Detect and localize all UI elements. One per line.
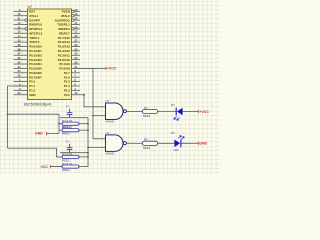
pin 31 EA/VPP left stub [14,17,40,23]
pin 24 P2.3/A11 right stub [58,52,80,58]
svg-text:RES2: RES2 [62,168,70,172]
svg-text:RES2: RES2 [62,132,70,136]
pin 32 P0.7/AD7 left stub [14,74,43,80]
pin 12 INT0/P3.2 left stub [14,25,43,31]
wire vertical net VCC down to gates [93,68,106,138]
svg-text:89C51RB2(Rp/4): 89C51RB2(Rp/4) [24,103,52,107]
pin 6 P1.5 right stub [64,78,80,84]
svg-text:U?: U? [28,5,32,9]
wire P1.1 long left vertical [8,86,28,148]
pin 9 RST left stub [14,8,36,14]
wire resistor to LED [158,142,175,144]
svg-text:C?: C? [66,140,70,144]
svg-text:P1.5: P1.5 [64,80,70,84]
pin 5 P1.4 right stub [64,82,80,88]
svg-text:RES2: RES2 [143,114,151,118]
wire VCC net from pin 21 to +VCC port [93,67,106,69]
pin 36 P0.3/AD3 left stub [14,56,43,62]
pin 4 P1.3 right stub [64,87,80,93]
LED D? pointing right [171,131,184,152]
power port GND [198,142,207,146]
svg-text:NAND: NAND [106,120,114,124]
svg-text:+VCC: +VCC [107,67,117,71]
pin 20 GND left stub [14,91,36,97]
svg-text:RES2: RES2 [143,146,151,150]
pin 17 RD/P3.7 right stub [59,30,80,36]
svg-text:GND: GND [35,132,43,136]
pin 19 XTAL1 left stub [14,12,39,18]
svg-text:NAND: NAND [106,151,114,155]
svg-text:P1.0: P1.0 [29,80,35,84]
svg-text:LED: LED [174,148,179,152]
svg-text:U?: U? [106,131,110,135]
resistor R? series [142,106,157,118]
svg-text:GND: GND [199,142,207,146]
resistor R? 4.7K [59,119,88,129]
pin 16 WR/P3.6 right stub [58,25,80,31]
resistor R? 4.7K [51,162,89,172]
capacitor C1 [66,105,73,118]
pin 34 P0.5/AD5 left stub [14,65,43,71]
right bus vertical x88 [87,118,89,167]
power port VCC lower-left [41,165,63,169]
junction at pin4 [83,94,85,96]
wire LED to port [182,142,199,144]
wire LED to port [183,111,199,113]
pin 28 P2.7/A15 right stub [58,34,80,40]
svg-text:+VCC: +VCC [199,110,209,114]
pin 7 P1.6 right stub [64,74,80,80]
pin 29 PSEN right stub [62,8,80,14]
pin 1 P1.0 left stub [14,78,36,84]
pin 13 INT1/P3.3 left stub [14,30,43,36]
wire cap bottom horizontal [60,152,88,154]
pin 18 XTAL2 right stub [61,12,80,18]
pin 27 P2.6/A14 right stub [58,38,80,44]
pin 25 P2.4/A12 right stub [58,47,80,53]
pin 14 T0/P3.4 left stub [14,34,40,40]
svg-text:P1.3: P1.3 [64,89,70,93]
LED D? pointing left [171,103,183,120]
wire pin4 P1.3 down to gate1 upper input [84,95,106,107]
resistor R? 4.7K [59,125,88,135]
svg-text:GND: GND [29,93,35,97]
pin 40 VCC right stub [64,91,84,97]
pin 21 P2.0/A8 right stub [59,65,93,71]
pin 11 TXD/P3.1 right stub [57,21,80,27]
svg-text:D?: D? [171,131,175,135]
wire gate1 lower input from VCC vertical [93,115,106,117]
svg-text:C?: C? [66,105,70,109]
wire gate2 lower input [88,147,106,149]
IC U? 89C51 microcontroller body [28,9,72,100]
wire gate output to resistor [127,142,143,144]
pin 15 T1/P3.5 left stub [14,38,40,44]
svg-text:VCC: VCC [41,165,49,169]
pin 38 P0.1/AD1 left stub [14,47,43,53]
pin 2 P1.1 left stub [14,82,36,88]
svg-text:P1.4: P1.4 [64,84,70,88]
svg-text:20: 20 [17,91,21,95]
wire cap bottom horizontal [60,117,88,119]
pin 10 RXD/P3.0 left stub [14,21,43,27]
pin 8 P1.7 right stub [64,69,80,75]
sheet background [0,0,220,174]
svg-text:U?: U? [106,99,110,103]
pin 26 P2.5/A13 right stub [58,43,80,49]
wire gate output to resistor [127,111,143,113]
power port +VCC [198,110,209,114]
pin 23 P2.2/A10 right stub [58,56,80,62]
pin 39 P0.0/AD0 left stub [14,43,43,49]
resistor R? 4.7K [57,152,89,162]
power port GND lower-left [35,132,59,136]
NAND gate U? (upper) [106,103,124,120]
pin 22 P2.1/A9 right stub [59,60,79,66]
pin 33 P0.6/AD6 left stub [14,69,43,75]
pin 35 P0.4/AD4 left stub [14,60,43,66]
svg-text:P1.2: P1.2 [29,89,35,93]
svg-text:P1.1: P1.1 [29,84,35,88]
pin 3 P1.2 left stub [14,87,36,93]
svg-text:D?: D? [171,103,175,107]
wire resistor to LED [158,111,177,113]
junction at 7.5,114.2 [7,113,9,115]
power port +VCC [106,67,117,71]
wire to group2 [8,148,63,157]
wire branch to group1 [8,114,60,133]
svg-text:40: 40 [74,91,78,95]
pin 30 ALE/PROG right stub [55,17,80,23]
junction at 93,115.7 [92,115,94,117]
svg-text:VCC: VCC [64,93,71,97]
NAND gate U? (lower) [106,135,124,152]
resistor R? series [142,138,157,150]
pin 37 P0.2/AD2 left stub [14,52,43,58]
capacitor C2 [66,140,73,153]
